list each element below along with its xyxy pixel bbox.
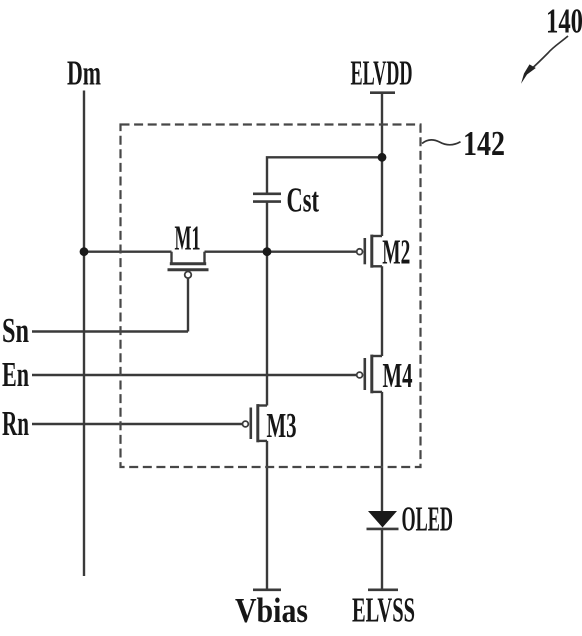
wire ELVDD mid between M2 and M4: [381, 266, 383, 356]
transistor M1 left stub: [170, 252, 172, 264]
transistor M3 channel bar: [256, 404, 259, 442]
transistor M2 bottom stub: [372, 265, 382, 267]
transistor M3 gate bar: [250, 408, 253, 440]
transistor M1 right stub: [203, 252, 205, 264]
transistor M2 gate bubble: [357, 249, 363, 255]
svg-text:M2: M2: [382, 234, 410, 272]
transistor M4 top stub: [372, 355, 382, 357]
svg-text:M4: M4: [383, 357, 413, 395]
junction node at Cst line and M1 row: [263, 247, 272, 256]
transistor M4 bottom stub: [372, 391, 382, 393]
wire Cst vertical down to M3: [266, 202, 268, 406]
wire M1 gate down to Sn: [187, 278, 189, 331]
wire M2 gate wire: [267, 250, 357, 252]
transistor M4 gate bubble: [357, 372, 363, 378]
svg-text:ELVSS: ELVSS: [352, 592, 415, 630]
junction node at ELVDD and top wire: [378, 153, 387, 162]
reference arrow for 140: [533, 36, 569, 68]
svg-text:Sn: Sn: [2, 312, 29, 350]
transistor M2 channel bar: [370, 235, 373, 268]
svg-text:140: 140: [546, 3, 582, 41]
svg-text:Vbias: Vbias: [235, 592, 308, 630]
diode OLED anode triangle: [368, 511, 397, 528]
squiggle tilde to 142: [422, 140, 461, 145]
svg-text:Cst: Cst: [287, 182, 320, 220]
wire Sn row: [32, 330, 188, 332]
svg-text:Dm: Dm: [67, 55, 101, 93]
capacitor C st plate 1: [253, 193, 281, 196]
diode OLED cathode bar: [367, 528, 399, 531]
pixel circuit dashed box 142: [121, 125, 421, 468]
transistor M3 top stub: [258, 404, 267, 406]
transistor M1 gate bar: [168, 268, 209, 271]
wire ELVDD vertical upper: [381, 93, 383, 236]
svg-text:ELVDD: ELVDD: [351, 55, 413, 93]
wire En row: [32, 374, 357, 376]
wire Vbias lower: [266, 441, 268, 589]
transistor M3 gate bubble: [243, 421, 249, 427]
transistor M2 gate bar: [363, 238, 366, 264]
node Vbias terminal bar: [253, 588, 281, 591]
node ELVDD terminal bar: [370, 91, 395, 94]
wire Rn row: [32, 423, 242, 425]
svg-text:En: En: [2, 356, 29, 394]
wire M1 row right segment: [205, 250, 268, 252]
transistor M1 channel bar: [170, 262, 206, 265]
svg-text:Rn: Rn: [2, 405, 29, 443]
junction node at Dm and M1 row: [80, 247, 89, 256]
svg-text:M1: M1: [175, 219, 201, 257]
wire Dm vertical data line: [83, 91, 85, 577]
svg-text:M3: M3: [267, 407, 297, 445]
wire OLED cathode to ELVSS: [381, 529, 383, 589]
svg-text:OLED: OLED: [402, 501, 454, 539]
node ELVSS terminal bar: [368, 588, 398, 591]
wire M1 row left segment: [84, 250, 172, 252]
capacitor Cst plate 2: [253, 200, 281, 203]
transistor M3 bottom stub: [258, 440, 267, 442]
transistor M4 gate bar: [363, 358, 366, 390]
transistor M4 channel bar: [370, 355, 373, 394]
wire ELVDD lower to OLED: [381, 392, 383, 512]
transistor M2 top stub: [372, 235, 382, 237]
svg-text:142: 142: [463, 125, 505, 163]
wire top horizontal from Cst to ELVDD: [267, 157, 382, 193]
transistor M1 gate bubble: [185, 272, 192, 279]
